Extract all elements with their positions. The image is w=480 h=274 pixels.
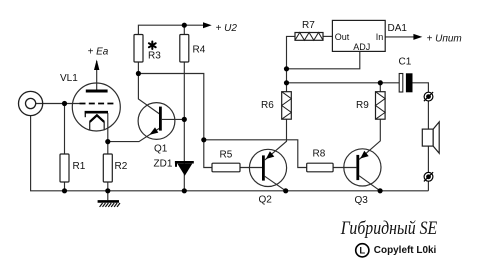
svg-text:Q1: Q1	[154, 144, 168, 155]
svg-text:ZD1: ZD1	[154, 159, 173, 170]
svg-text:R8: R8	[313, 149, 326, 160]
svg-text:Гибридный SE: Гибридный SE	[340, 219, 437, 239]
svg-text:ADJ: ADJ	[353, 42, 370, 52]
svg-text:Q3: Q3	[355, 195, 369, 206]
svg-text:+ Ea: + Ea	[88, 47, 109, 58]
svg-text:R9: R9	[356, 100, 369, 111]
svg-text:R5: R5	[220, 150, 233, 161]
svg-text:R4: R4	[193, 45, 206, 56]
svg-text:L: L	[359, 246, 365, 257]
svg-text:VL1: VL1	[60, 73, 78, 84]
svg-text:C1: C1	[399, 57, 412, 68]
svg-text:DA1: DA1	[388, 23, 408, 34]
svg-text:In: In	[376, 32, 384, 42]
svg-text:Copyleft L0ki: Copyleft L0ki	[374, 244, 437, 256]
svg-text:Q2: Q2	[259, 195, 273, 206]
svg-text:Out: Out	[335, 32, 350, 42]
svg-text:R1: R1	[73, 161, 86, 172]
svg-text:R3: R3	[148, 51, 161, 62]
svg-text:R6: R6	[261, 100, 274, 111]
svg-text:+ Uпит: + Uпит	[427, 34, 462, 45]
svg-text:+ U2: + U2	[216, 23, 238, 34]
svg-text:R7: R7	[302, 20, 315, 31]
svg-text:R2: R2	[115, 161, 128, 172]
